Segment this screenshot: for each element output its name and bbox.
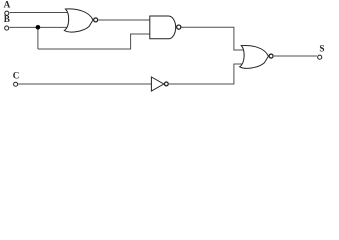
wire NAND output horizontal xyxy=(181,26,234,28)
wire A input to NOR1 xyxy=(10,12,68,14)
NOR gate 2 body xyxy=(240,45,273,68)
junction dot on B wire xyxy=(36,25,41,30)
NOT gate output bubble xyxy=(164,82,168,86)
svg-text:A: A xyxy=(4,0,11,9)
wire C input to NOT xyxy=(18,83,152,85)
wire NOR2 output to S xyxy=(274,55,317,57)
wire B input to NOR1 xyxy=(9,26,67,28)
NOR gate 2 output bubble xyxy=(269,54,273,58)
input terminal A xyxy=(5,11,9,15)
NAND gate output bubble xyxy=(177,25,181,29)
wire B branch vertical up xyxy=(130,34,132,50)
wire B branch to NAND lower input xyxy=(130,33,150,35)
output terminal S xyxy=(318,55,322,59)
wire NOR1 output to NAND upper input xyxy=(98,19,150,21)
wire B branch horizontal xyxy=(38,48,131,50)
NOT gate (inverter) body xyxy=(151,77,168,91)
svg-text:S: S xyxy=(319,44,324,54)
NOR gate 1 body xyxy=(64,9,97,32)
wire NOT output vertical up xyxy=(233,64,235,85)
wire NAND output vertical down xyxy=(233,27,235,50)
svg-text:B: B xyxy=(4,14,10,24)
wire B branch vertical down xyxy=(37,27,39,49)
wire to NOR2 upper input xyxy=(233,49,244,51)
NAND gate body xyxy=(150,16,181,39)
input terminal B xyxy=(5,26,9,30)
input terminal C xyxy=(14,82,18,86)
svg-text:C: C xyxy=(13,70,20,80)
wire NOT output horizontal xyxy=(169,83,234,85)
wire to NOR2 lower input xyxy=(233,63,242,65)
NOR gate 1 output bubble xyxy=(94,18,98,22)
